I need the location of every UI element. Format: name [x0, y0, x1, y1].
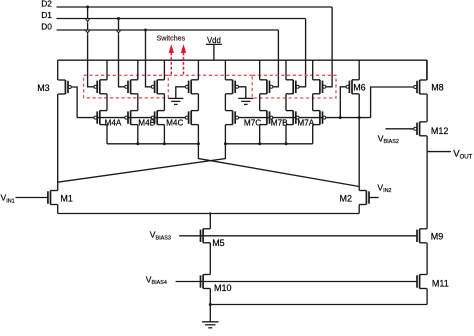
wire rail to SWR3 source	[312, 60, 314, 80]
wire M6 drain to M2 drain	[358, 94, 360, 191]
wire VBIAS4 gate line to M11	[176, 281, 417, 283]
svg-text:M5: M5	[212, 238, 225, 248]
wire rail to M6 source	[358, 60, 360, 80]
wire M9 source to M11 drain	[426, 243, 428, 275]
annotation arrow 2 to Switches	[183, 52, 185, 75]
ground at SW4 gate	[168, 97, 183, 99]
junction dot left rail M4C	[163, 142, 166, 145]
junction dot D2 branch	[86, 6, 89, 9]
transistor M7B	[292, 111, 294, 125]
wire SW to M4A drain-source	[106, 94, 108, 111]
wire Vdd to rail	[213, 44, 215, 60]
transistor M9	[419, 229, 421, 243]
wire M5 source to M10 drain	[209, 243, 211, 275]
wire VOUT tap	[427, 151, 451, 153]
wire M11 source to bottom rail	[426, 289, 428, 305]
junction dot M6 drain on bus	[358, 116, 361, 119]
wire M4 drain to rail	[137, 125, 139, 144]
wire M6 gate down to mirror bus	[340, 87, 346, 118]
wire rail to SWR0 source	[224, 60, 226, 80]
power Vdd bar	[206, 43, 222, 45]
wire SW to M7C drain-source	[259, 94, 261, 111]
wire M2 gate stub	[369, 197, 379, 199]
junction dot D0 branch	[144, 29, 147, 32]
wire rail to M3 source	[57, 60, 59, 80]
wire SW to M7B drain-source	[285, 94, 287, 111]
wire rail to SW3 source	[163, 60, 165, 80]
wire left mirror gate bus	[77, 117, 185, 119]
transistor SWR0 (always-on switch right)	[232, 80, 234, 94]
transistor M4C	[156, 111, 158, 125]
wire D0 branch vertical to SW3 gate	[146, 30, 152, 87]
junction dot right rail M7C	[258, 142, 261, 145]
junction dot left rail M4B	[136, 142, 139, 145]
annotation dashed box right switches	[252, 75, 336, 98]
wire hop D2-over-D0	[85, 31, 89, 34]
junction dot left rail M4D	[197, 142, 200, 145]
wire M7 drain to rail	[259, 125, 261, 144]
wire SWR0 gate to ground	[239, 87, 246, 99]
wire bottom rail	[210, 304, 427, 306]
wire rail to M8 source	[426, 60, 428, 80]
wire left rail to M2 drain (cross)	[198, 144, 359, 187]
transistor M10	[202, 275, 204, 289]
wire SW to M4D drain-source	[197, 94, 199, 111]
wire hop D2-over-D1	[85, 19, 89, 22]
transistor M3	[64, 80, 66, 94]
svg-text:M6: M6	[353, 83, 366, 93]
wire D0 right drop to SW7C gate	[273, 30, 279, 87]
wire M1 source to tail	[57, 205, 59, 214]
transistor M7A	[319, 111, 321, 125]
wire M4 drain to rail	[106, 125, 108, 144]
wire SW to M4B drain-source	[137, 94, 139, 111]
transistor M11	[419, 275, 421, 289]
svg-text:M3: M3	[37, 83, 50, 93]
transistor M4A	[99, 111, 101, 125]
transistor M7D (always-on branch right)	[232, 111, 234, 125]
junction dot right rail M7D	[224, 142, 227, 145]
wire M12 drain to M9 drain	[426, 136, 428, 229]
wire rail to SWR1 source	[259, 60, 261, 80]
svg-text:M9: M9	[431, 231, 444, 241]
wire M8 source to rail	[426, 60, 428, 80]
wire SW to M7D drain-source	[224, 94, 226, 111]
junction dot M6 gate on bus	[339, 116, 342, 119]
wire SW to M7A drain-source	[312, 94, 314, 111]
annotation arrow 1 to Switches	[170, 52, 172, 75]
wire D2 branch vertical to SW1 gate	[88, 7, 94, 87]
wire VBIAS2 to M12 gate	[385, 128, 413, 130]
wire D1 line	[57, 18, 306, 20]
wire Vdd rail	[58, 59, 427, 61]
wire right drain rail	[225, 143, 312, 145]
wire rail to SW2 source	[137, 60, 139, 80]
junction dot right rail M7B	[285, 142, 288, 145]
wire D1 branch vertical to SW2 gate	[119, 19, 125, 87]
wire left drain rail	[107, 143, 198, 145]
transistor SWR3 (switch D2 right)	[319, 80, 321, 94]
svg-text:D1: D1	[41, 10, 52, 20]
svg-text:D0: D0	[41, 22, 52, 32]
svg-text:M7C: M7C	[244, 119, 261, 128]
wire right mirror gate bus	[239, 117, 371, 119]
wire right rail to M1 drain (cross)	[58, 144, 226, 182]
junction dot D1 branch	[117, 17, 120, 20]
svg-text:M2: M2	[340, 194, 353, 204]
wire M3 gate to left bus	[71, 87, 77, 118]
transistor M6	[351, 80, 353, 94]
transistor M5	[202, 229, 204, 243]
junction dot bottom rail	[209, 303, 212, 306]
wire hop D1-over-D0	[116, 31, 120, 34]
transistor M1	[50, 191, 52, 205]
wire M7 drain to rail	[285, 125, 287, 144]
wire M4 drain to rail	[163, 125, 165, 144]
svg-text:Switches: Switches	[157, 34, 186, 43]
svg-text:M8: M8	[431, 83, 444, 93]
wire M3 drain to M1 drain	[57, 94, 59, 191]
wire D1 right drop to SW7B gate	[299, 19, 306, 87]
wire M2 source to tail	[358, 205, 360, 214]
svg-text:D2: D2	[41, 0, 52, 9]
svg-text:M11: M11	[432, 278, 449, 288]
wire M4 drain to rail	[197, 125, 199, 144]
annotation dashed connector between boxes	[168, 74, 252, 76]
transistor M12	[419, 122, 421, 136]
wire M7 drain to rail	[312, 125, 314, 144]
wire VIN1 to M1 gate	[16, 197, 48, 199]
wire SW4 gate to ground	[176, 87, 186, 99]
transistor SWR2 (switch D1 right)	[292, 80, 294, 94]
wire VBIAS3 gate line to M9	[179, 235, 417, 237]
wire M8 gate to mirror bus riser	[371, 87, 414, 118]
wire rail to SWR2 source	[285, 60, 287, 80]
transistor SW1 (switch D2)	[99, 80, 101, 94]
wire M10 source to ground	[209, 289, 211, 322]
transistor M4B	[130, 111, 132, 125]
wire SW to M4C drain-source	[163, 94, 165, 111]
transistor M4D (always-on branch)	[190, 111, 192, 125]
wire D2 right drop to SW7A gate	[326, 7, 332, 87]
svg-text:M12: M12	[431, 126, 449, 136]
transistor M2	[365, 191, 367, 205]
transistor SW3 (switch D0)	[156, 80, 158, 94]
transistor SW2 (switch D1)	[130, 80, 132, 94]
wire tail bus	[58, 213, 360, 215]
annotation dashed box left switches	[84, 75, 169, 98]
wire M8 drain to M12 source	[426, 94, 428, 122]
svg-text:M10: M10	[214, 283, 232, 293]
wire D0 line	[57, 29, 279, 31]
svg-text:M1: M1	[60, 193, 73, 203]
wire rail to SW4 source	[197, 60, 199, 80]
wire M7 drain to rail	[224, 125, 226, 144]
transistor M8	[419, 80, 421, 94]
transistor M7C	[266, 111, 268, 125]
transistor SWR1 (switch D0 right)	[266, 80, 268, 94]
svg-text:M4B: M4B	[138, 119, 155, 128]
wire tail to M5 drain	[209, 214, 211, 229]
junction dot tail M5	[209, 212, 211, 214]
ground main	[202, 321, 218, 323]
transistor SW4 (always-on switch)	[190, 80, 192, 94]
wire rail to SW1 source	[106, 60, 108, 80]
svg-text:M4C: M4C	[166, 119, 183, 128]
ground at SWR0 gate	[238, 97, 253, 99]
wire D2 line	[57, 6, 333, 8]
